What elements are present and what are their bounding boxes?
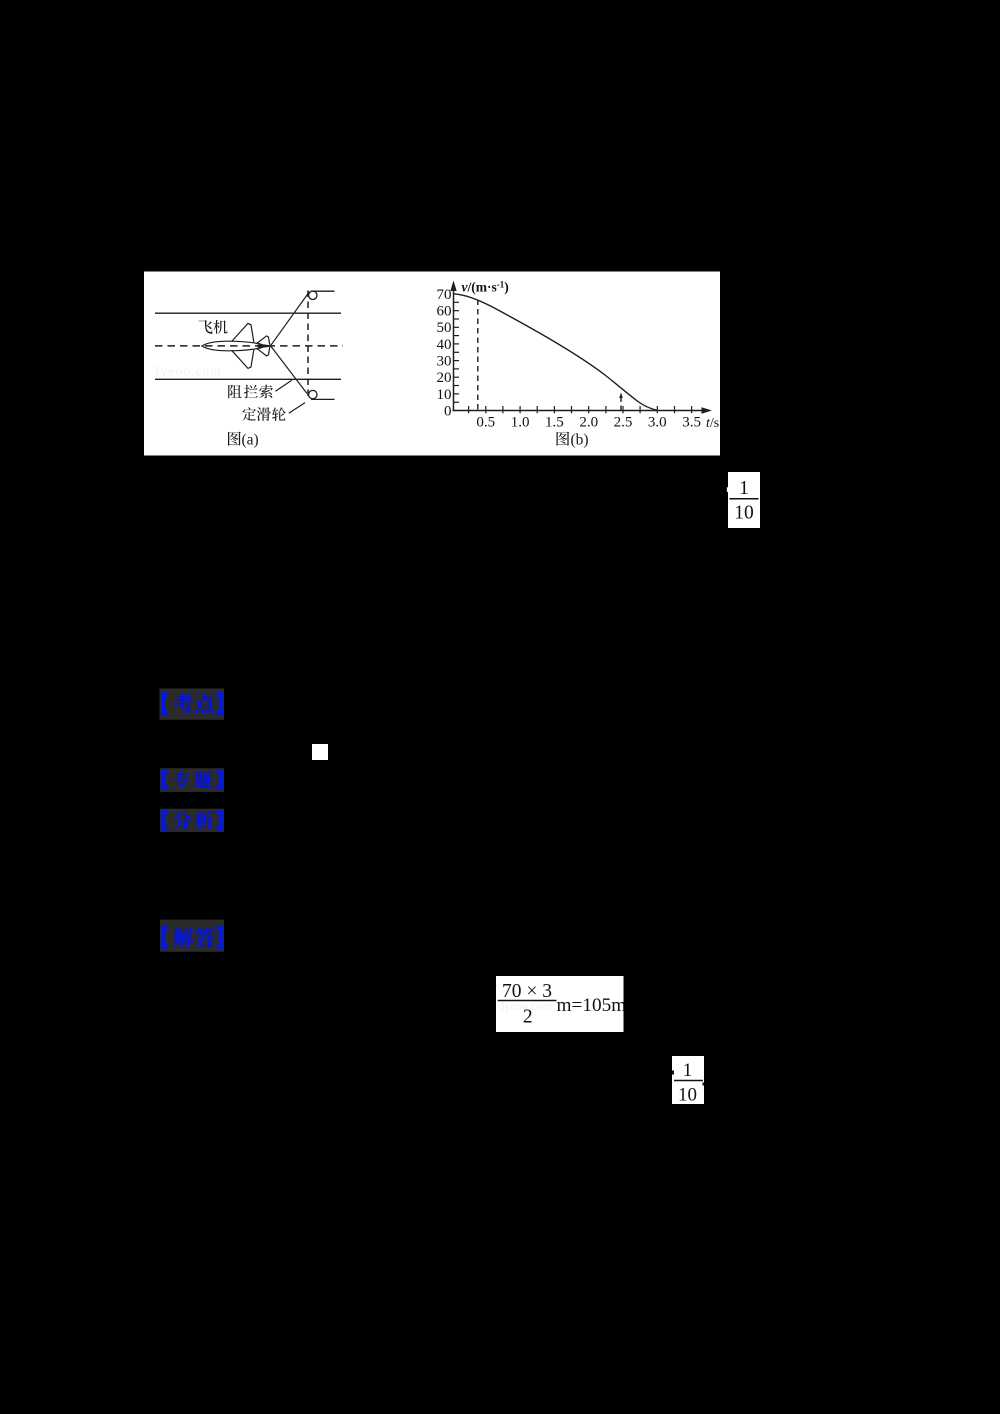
x axis ticks <box>469 406 692 413</box>
label feiji (airplane) <box>199 320 213 334</box>
blue tag kaodian <box>160 689 225 720</box>
svg-text:50: 50 <box>437 320 452 336</box>
zulansuo pointer line <box>276 380 292 391</box>
svg-text:10: 10 <box>734 503 754 524</box>
x axis <box>453 410 707 412</box>
svg-text:3.0: 3.0 <box>648 415 667 431</box>
svg-text:30: 30 <box>437 354 452 370</box>
figure panel background <box>144 272 720 456</box>
blue tag zhuanti <box>160 768 224 792</box>
airplane <box>202 323 271 368</box>
svg-text:60: 60 <box>437 304 452 320</box>
svg-text:0.5: 0.5 <box>476 415 495 431</box>
svg-text:0: 0 <box>444 403 452 419</box>
bottom pulley <box>309 390 317 398</box>
x axis labels <box>476 415 701 431</box>
caption figure b <box>556 432 569 446</box>
svg-text:1.5: 1.5 <box>545 415 564 431</box>
runway bottom edge line <box>155 378 341 380</box>
svg-text:2.0: 2.0 <box>579 415 598 431</box>
svg-text:Jyeoo.com: Jyeoo.com <box>154 364 222 379</box>
svg-text:70: 70 <box>437 287 452 303</box>
label dinghualun (fixed pulley) <box>242 407 256 420</box>
velocity curve <box>454 294 658 411</box>
svg-text:(b): (b) <box>571 432 589 449</box>
fraction 1/10 box first <box>728 472 760 528</box>
caption figure a <box>228 432 241 446</box>
svg-text:20: 20 <box>437 370 452 386</box>
dashed line at t 0.36 <box>477 300 479 410</box>
blue tag fenxi <box>160 809 224 832</box>
arresting cable upper segment <box>271 292 310 346</box>
top pulley <box>309 291 317 299</box>
svg-text:10: 10 <box>678 1085 697 1106</box>
svg-text:3.5: 3.5 <box>682 415 701 431</box>
label zulansuo (arresting cable) <box>228 385 241 399</box>
svg-text:1: 1 <box>683 1060 693 1081</box>
svg-text:2: 2 <box>523 1006 533 1027</box>
svg-text:40: 40 <box>437 337 452 353</box>
dashed vertical cable line <box>307 291 309 400</box>
svg-text:2.5: 2.5 <box>614 415 633 431</box>
formula box 70x3 over 2 m equals 105m <box>496 976 624 1032</box>
svg-text:(a): (a) <box>242 432 259 449</box>
svg-text:10: 10 <box>437 387 452 403</box>
dinghualun pointer line <box>289 403 305 414</box>
svg-text:1: 1 <box>739 478 749 499</box>
arresting cable lower segment <box>271 346 308 394</box>
svg-text:t/s: t/s <box>706 416 719 431</box>
svg-text:1.0: 1.0 <box>511 415 530 431</box>
y axis labels <box>437 287 452 420</box>
white square placeholder <box>312 744 328 760</box>
runway top edge line <box>155 312 341 314</box>
dashed marker at t 2.5 <box>620 395 622 411</box>
svg-text:m=105m: m=105m <box>557 995 627 1016</box>
svg-text:70 × 3: 70 × 3 <box>502 981 552 1002</box>
y axis ticks <box>454 302 460 402</box>
y axis <box>453 288 455 411</box>
fraction 1/10 box second <box>672 1056 704 1104</box>
runway dashed centerline <box>155 345 343 347</box>
blue tag jieda <box>160 920 224 952</box>
